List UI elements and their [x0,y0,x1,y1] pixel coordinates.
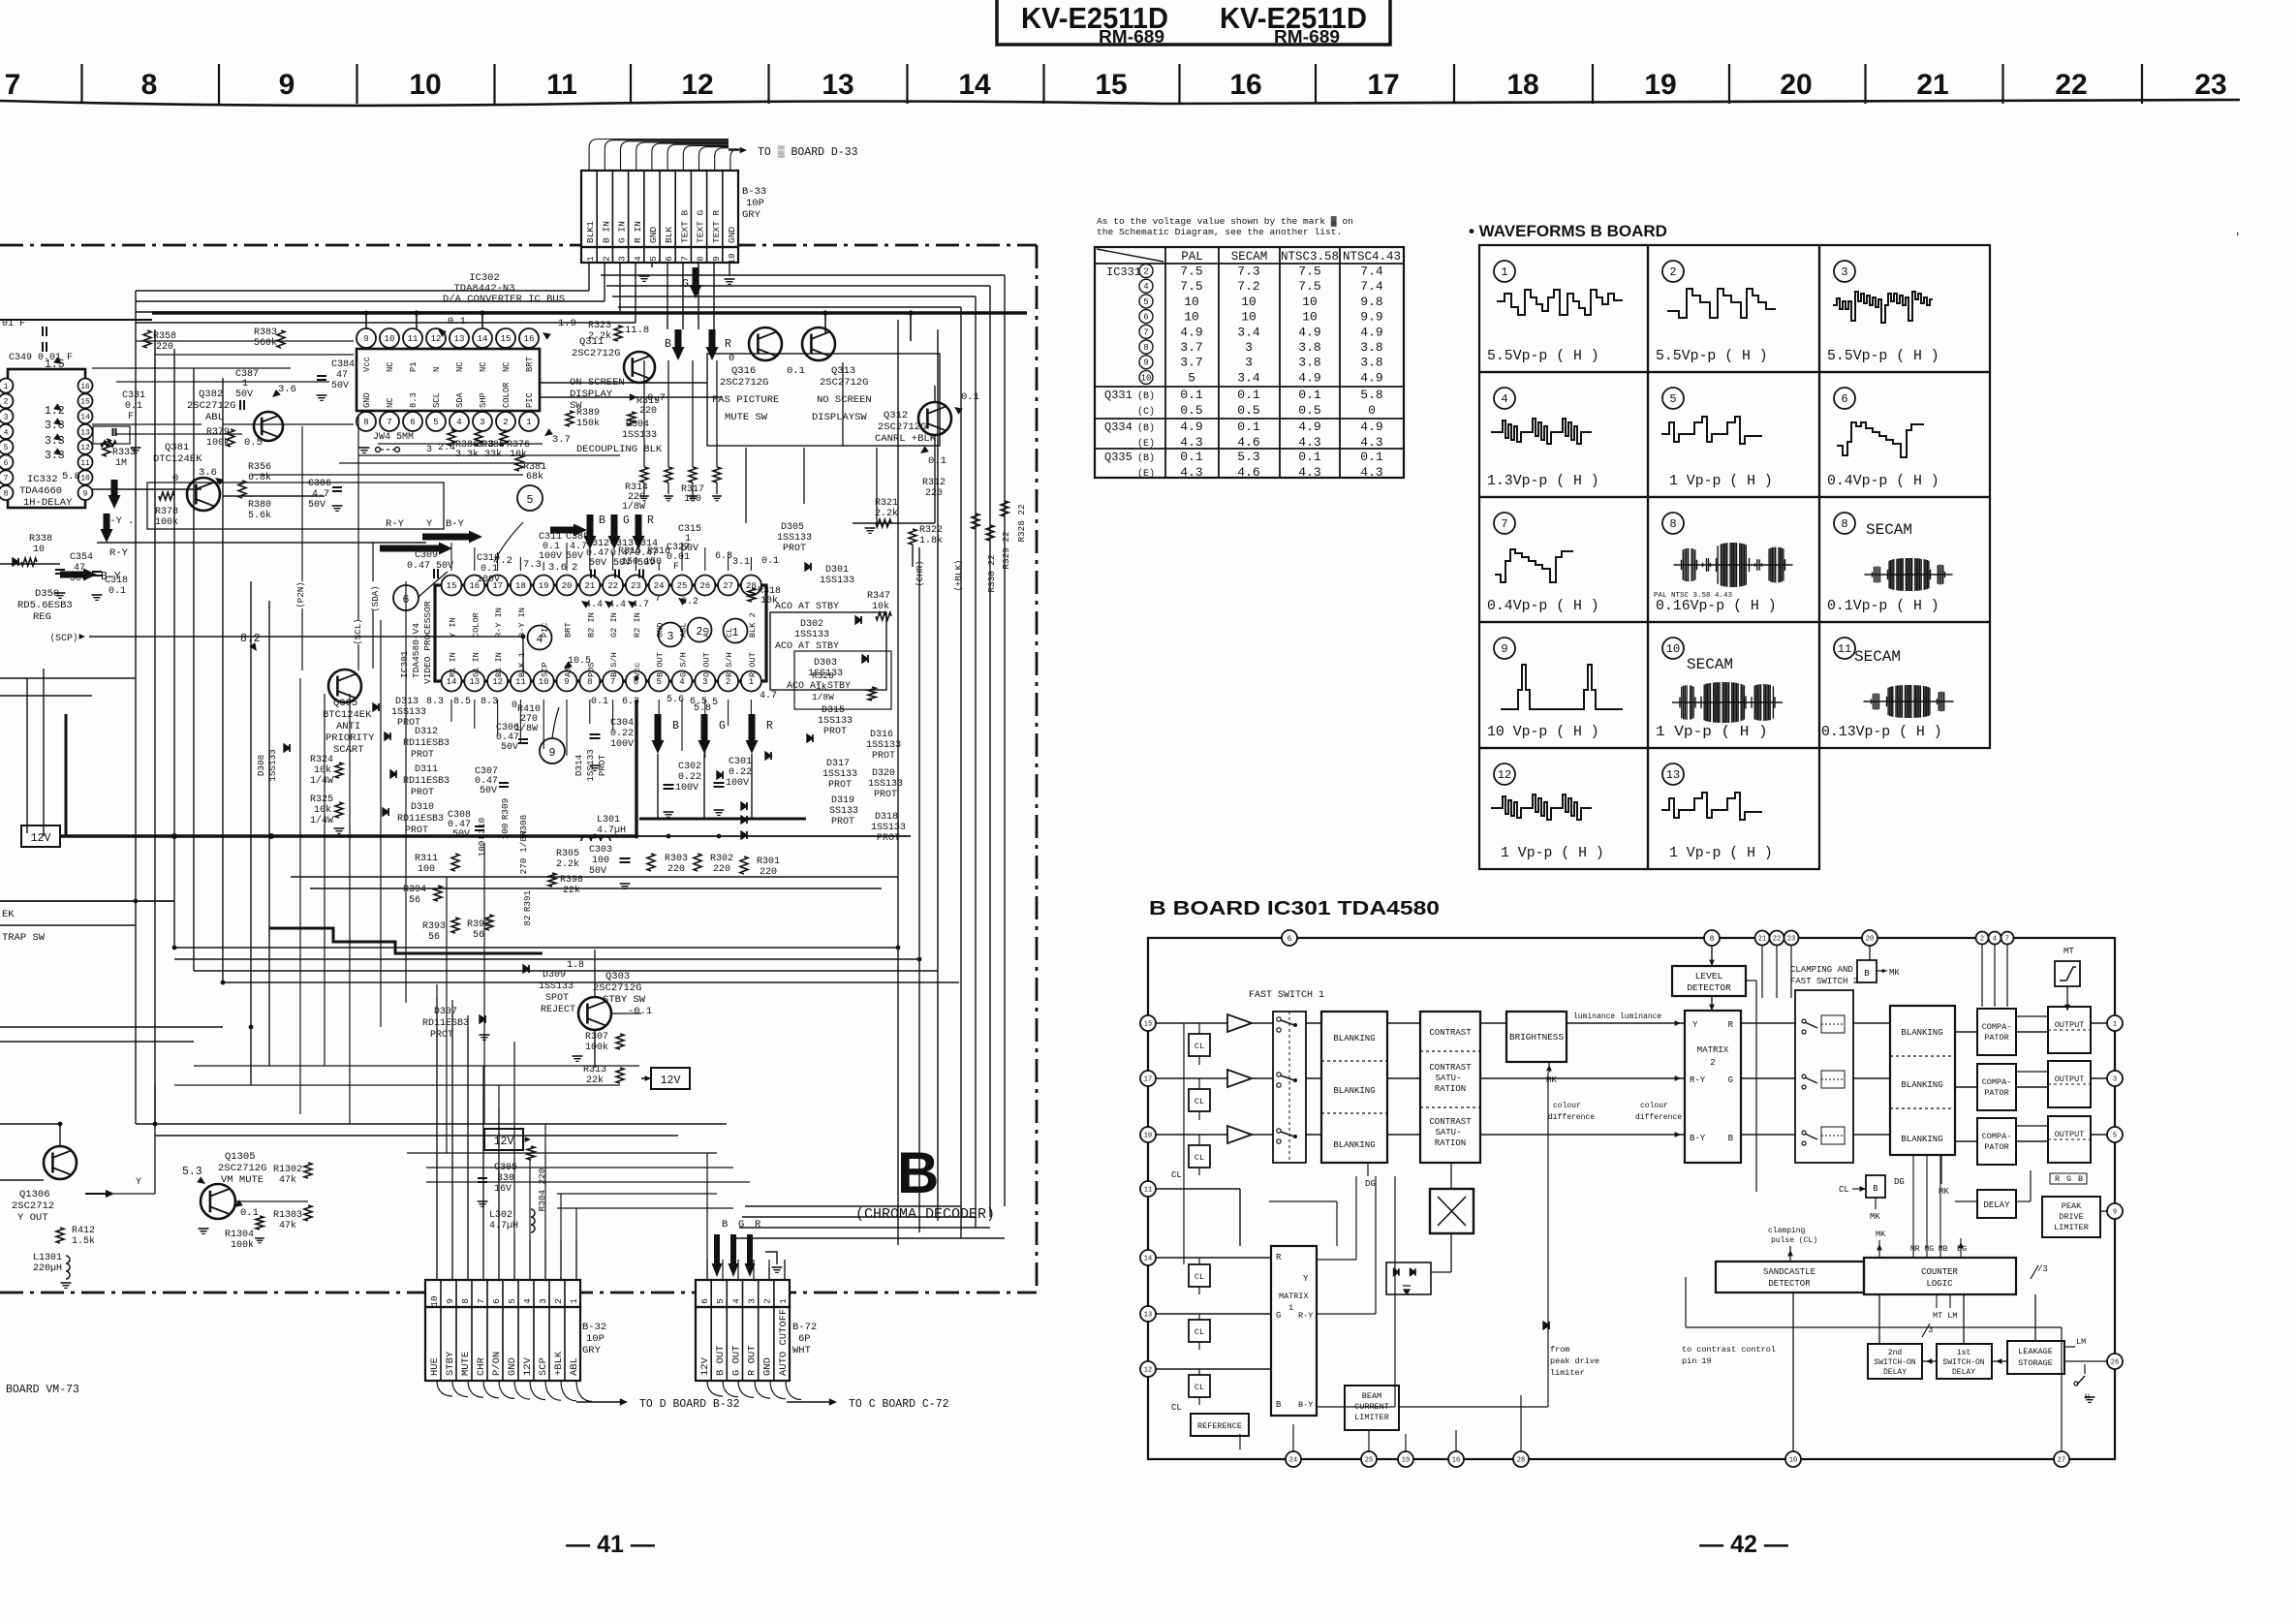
resistors under connector verticals [640,467,648,483]
svg-text:4: 4 [1501,392,1507,406]
svg-text:10k: 10k [314,764,331,776]
svg-text:SATU-: SATU- [1435,1128,1461,1137]
fat arrow down at B-Y [109,480,121,509]
svg-text:5.3: 5.3 [1237,450,1259,464]
svg-text:1: 1 [1288,1303,1293,1313]
svg-text:4.6: 4.6 [1237,465,1259,480]
svg-text:G: G [1728,1075,1733,1085]
svg-text:B: B [1864,969,1870,979]
svg-text:BLK1: BLK1 [585,221,596,243]
block LEVEL DETECTOR [1672,966,1746,996]
wire verticals in switch box area [745,448,747,523]
svg-text:21: 21 [1758,936,1766,944]
svg-text:2.2k: 2.2k [556,858,579,870]
svg-text:B IN: B IN [601,221,611,243]
svg-text:0.1: 0.1 [1298,388,1321,402]
svg-text:DETECTOR: DETECTOR [1768,1279,1811,1289]
svg-text:SCL: SCL [432,392,442,408]
svg-text:3: 3 [667,631,674,643]
svg-text:Y IN: Y IN [449,617,458,638]
svg-text:220: 220 [667,864,685,875]
svg-text:12V: 12V [661,1075,681,1087]
svg-text:4.9: 4.9 [1180,325,1202,339]
svg-text:1: 1 [586,256,596,261]
svg-text:⟨SCL⟩: ⟨SCL⟩ [353,618,363,645]
svg-text:1: 1 [526,418,531,427]
svg-text:3.6: 3.6 [199,467,217,479]
svg-text:B: B [897,1140,939,1205]
svg-text:difference: difference [1548,1113,1595,1122]
fat arrow right into IC301 pin15 [550,524,587,537]
svg-text:ACO AT STBY: ACO AT STBY [775,602,839,612]
svg-text:L1301: L1301 [33,1253,62,1263]
svg-text:0.5: 0.5 [244,437,263,449]
svg-text:220: 220 [713,864,730,875]
wire peak drive limiter to right pin 9 [2100,1210,2107,1212]
svg-text:10: 10 [1184,310,1199,325]
svg-text:10: 10 [1241,310,1257,325]
block BRIGHTNESS [1506,1012,1567,1062]
svg-text:RD5.6ESB3: RD5.6ESB3 [17,600,73,611]
svg-text:/3: /3 [2037,1264,2048,1274]
svg-text:3.4: 3.4 [1237,370,1260,385]
svg-text:11: 11 [408,334,419,344]
svg-text:13: 13 [822,69,853,101]
svg-text:100k: 100k [231,1239,254,1251]
svg-text:12: 12 [681,69,713,101]
svg-text:R311: R311 [415,854,438,864]
svg-text:100V: 100V [477,575,500,585]
svg-text:PATOR: PATOR [1984,1142,2009,1152]
svg-text:OUTPUT: OUTPUT [2055,1020,2085,1030]
board border dash-dot bottom [0,1292,1037,1294]
svg-text:— 41 —: — 41 — [566,1531,655,1558]
svg-text:SANDCASTLE: SANDCASTLE [1763,1267,1815,1277]
svg-text:11: 11 [515,677,526,687]
svg-text:As to the voltage value shown: As to the voltage value shown by the mar… [1097,216,1353,227]
waveform 1 cell [1494,261,1515,282]
wire horizontals lower mid [174,947,898,949]
svg-text:G S/H: G S/H [679,652,689,677]
svg-text:100k: 100k [206,437,230,449]
svg-text:DRIVE: DRIVE [2059,1212,2084,1222]
svg-text:22: 22 [1773,936,1781,944]
wire connector region verticals [436,1240,438,1280]
svg-text:R: R [647,514,654,527]
svg-text:0.5: 0.5 [1180,403,1202,418]
block BLANKING input [1321,1012,1387,1163]
svg-text:13: 13 [1666,768,1680,782]
wire left pins to matrix1 [1156,1257,1271,1259]
svg-text:G: G [719,720,726,732]
block DELAY [1977,1190,2016,1218]
svg-text:B-Y: B-Y [446,518,465,530]
waveform 4 cell [1494,388,1515,409]
svg-text:3: 3 [480,418,484,427]
svg-text:1: 1 [4,383,9,391]
svg-text:50V: 50V [331,381,349,391]
svg-text:R330 22: R330 22 [986,554,997,592]
svg-text:DG: DG [1365,1179,1376,1189]
svg-text:Q1305: Q1305 [225,1151,256,1163]
svg-text:R: R [1728,1020,1734,1030]
svg-text:STBY SW: STBY SW [603,994,646,1006]
svg-text:4.9: 4.9 [1298,325,1320,339]
svg-text:1: 1 [778,1298,789,1304]
wire horizontals feeding B-72 [557,1193,717,1195]
svg-text:RATION: RATION [1435,1084,1466,1094]
grid ruler line [0,100,2240,106]
svg-text:B1 IN: B1 IN [494,652,504,677]
svg-text:G2 IN: G2 IN [609,612,619,638]
svg-text:12V: 12V [699,1356,711,1376]
svg-text:150 150: 150 150 [621,557,662,568]
svg-text:50V: 50V [589,866,606,877]
svg-text:7.2: 7.2 [494,555,512,567]
svg-text:PROT: PROT [411,788,434,798]
svg-text:9: 9 [363,334,368,344]
svg-text:47k: 47k [279,1220,296,1231]
svg-text:SECAM: SECAM [1866,521,1912,539]
svg-text:12V: 12V [494,1136,514,1148]
svg-text:4.3: 4.3 [1360,465,1382,480]
svg-text:CHR: CHR [476,1356,487,1376]
svg-text:0.1: 0.1 [1237,388,1260,402]
svg-text:pulse (CL): pulse (CL) [1771,1236,1817,1245]
small box B top [1857,960,1877,982]
svg-text:0.1: 0.1 [109,586,126,597]
svg-text:SECAM: SECAM [1687,656,1733,673]
svg-text:Q381: Q381 [165,442,189,453]
svg-text:Q303: Q303 [605,971,630,982]
fat arrows B G R to IC301 pins 21-23 [584,514,597,549]
block PEAK DRIVE LIMITER [2042,1197,2100,1237]
svg-text:colour: colour [1553,1102,1581,1110]
svg-text:FAS PICTURE: FAS PICTURE [712,394,779,406]
svg-text:R1303: R1303 [273,1210,302,1221]
svg-text:Q1306: Q1306 [19,1189,50,1200]
svg-text:2: 2 [602,256,611,261]
svg-text:5: 5 [4,444,9,452]
fat arrows B G R into B-72 [712,1234,723,1277]
wire B-72 verticals tall [706,1153,708,1280]
blocks OUTPUT x3 [2048,1007,2091,1053]
svg-text:NC: NC [455,361,465,372]
svg-text:R: R [755,1219,761,1231]
svg-text:3.6: 3.6 [548,562,567,574]
arrow Y out [106,1190,114,1198]
wire connector B-33 pin drops [588,263,590,291]
svg-text:17: 17 [1367,69,1399,101]
svg-text:3: 3 [618,256,628,261]
svg-text:7: 7 [680,256,690,261]
svg-text:LOGIC: LOGIC [1926,1279,1953,1289]
svg-text:12: 12 [1498,768,1511,782]
svg-text:4.3: 4.3 [1360,435,1382,450]
svg-text:L301: L301 [597,815,620,826]
svg-text:2: 2 [553,1298,564,1304]
svg-text:Q382: Q382 [199,389,223,400]
svg-text:11: 11 [546,69,577,101]
svg-text:ABL: ABL [205,412,224,423]
svg-text:3: 3 [1841,265,1847,279]
svg-text:DETECTOR: DETECTOR [1687,982,1731,993]
connector B-33 [581,171,738,263]
svg-text:DECOUPLING BLK: DECOUPLING BLK [576,444,663,455]
svg-text:CL: CL [1195,1383,1204,1392]
svg-text:8: 8 [141,69,158,101]
waveform 2 cell [1662,261,1684,282]
svg-text:4.3: 4.3 [1180,465,1202,480]
svg-text:0.1: 0.1 [591,697,608,707]
svg-text:REG: REG [33,611,51,623]
svg-text:1: 1 [749,677,754,687]
wire nested corner bottoms to connectors [736,1237,1005,1239]
svg-text:3.8: 3.8 [1360,340,1382,355]
svg-text:Q305: Q305 [333,698,357,709]
svg-text:GND: GND [507,1357,518,1376]
svg-text:18: 18 [1506,69,1538,101]
wire lower-left area [0,1123,60,1125]
svg-text:D313: D313 [395,697,419,707]
board border dash-dot right [1036,245,1039,1293]
svg-text:6: 6 [699,1298,710,1304]
wire horizontal sub-bus y335 [0,319,152,321]
svg-text:TEXT R: TEXT R [711,209,722,243]
svg-text:SCP: SCP [538,1357,549,1376]
title box KV-E2511D RM-689 [997,0,1390,45]
svg-text:6.8k: 6.8k [248,472,271,483]
fat arrow right mid2 [422,531,482,544]
svg-text:4.3: 4.3 [1180,435,1202,450]
wire horizontals left low [0,900,174,902]
svg-text:R380: R380 [248,500,271,511]
svg-text:PROT: PROT [874,790,897,800]
svg-text:TO ▒ BOARD D-33: TO ▒ BOARD D-33 [758,145,858,159]
svg-text:TDA4660: TDA4660 [19,485,62,497]
svg-text:from: from [1550,1345,1569,1355]
svg-text:SECAM: SECAM [1231,250,1268,264]
svg-text:0.1: 0.1 [240,1207,259,1219]
svg-text:68k: 68k [526,471,543,483]
svg-text:R325: R325 [310,794,333,805]
svg-text:33k: 33k [484,449,502,460]
svg-text:PROT: PROT [783,544,806,554]
svg-text:RD11ESB3: RD11ESB3 [397,814,444,825]
svg-text:9: 9 [1501,642,1507,656]
fat arrow right mid1 [380,543,452,555]
svg-text:⟨SDA⟩: ⟨SDA⟩ [370,585,381,612]
svg-text:Y: Y [1692,1020,1698,1030]
blocks COMPARATOR x3 [1977,1009,2016,1055]
svg-text:P/ON: P/ON [491,1352,503,1376]
svg-text:B: B [722,1219,728,1231]
diode pair block [1386,1262,1431,1294]
wire vertical pin21-23 to fast switch 2 [1761,946,1763,998]
svg-text:(B): (B) [1137,422,1155,434]
waveform ref circle 4 [528,626,552,650]
svg-text:8.3: 8.3 [409,392,419,408]
svg-text:5.6k: 5.6k [248,510,271,521]
svg-text:4.9: 4.9 [1298,370,1320,385]
svg-text:1SS133: 1SS133 [820,576,854,586]
wire Q312 connections [934,386,936,402]
svg-text:DTC124EK: DTC124EK [153,453,202,465]
svg-text:47k: 47k [279,1174,296,1186]
svg-text:CL: CL [1195,1153,1204,1163]
wire thick top bus [152,311,1027,315]
svg-text:5.5Vp-p ( H ): 5.5Vp-p ( H ) [1827,349,1939,364]
svg-text:OUTPUT: OUTPUT [2055,1130,2085,1139]
svg-text:3.4: 3.4 [1237,325,1260,339]
svg-text:3.3k: 3.3k [455,449,479,460]
waveform 8 cell [1834,513,1855,534]
svg-text:8: 8 [1143,343,1148,353]
svg-text:0.5: 0.5 [1237,403,1259,418]
svg-text:9: 9 [2113,1209,2117,1217]
svg-text:R OUT: R OUT [747,1345,759,1376]
svg-text:0.47 50V: 0.47 50V [407,561,453,572]
svg-text:peak drive: peak drive [1550,1356,1599,1366]
svg-text:⟨SCP⟩: ⟨SCP⟩ [49,633,78,644]
svg-text:B: B [599,514,605,527]
block 1st SWITCH-ON DELAY [1937,1344,1992,1379]
svg-text:4: 4 [456,418,461,427]
svg-text:3: 3 [747,1298,758,1304]
svg-text:B: B [2078,1174,2083,1184]
svg-text:12V: 12V [31,832,51,845]
svg-text:BOARD VM-73: BOARD VM-73 [6,1384,79,1396]
wire B-32 verticals tall [436,984,438,1280]
svg-text:100V: 100V [539,551,562,562]
svg-text:CL: CL [1839,1185,1849,1195]
svg-text:9: 9 [279,69,295,101]
svg-text:2: 2 [503,418,508,427]
pins 21 22 23 top [1755,931,1770,946]
svg-text:4.9: 4.9 [1360,370,1382,385]
block CONTRAST and SATURATION [1420,1012,1480,1163]
svg-text:R1 IN: R1 IN [449,652,458,677]
svg-text:9: 9 [445,1298,455,1304]
svg-text:4: 4 [522,1298,533,1304]
svg-text:3.1: 3.1 [732,557,750,568]
wire vertical SDA SCL long [372,610,374,669]
fat arrow right B-Y [60,569,97,581]
svg-text:G IN: G IN [617,221,628,243]
svg-text:7: 7 [5,69,21,101]
svg-text:8.3: 8.3 [426,697,444,707]
svg-text:3: 3 [1245,340,1253,355]
svg-text:G: G [623,514,630,527]
svg-text:R321: R321 [875,498,898,509]
svg-text:D314: D314 [574,754,584,776]
svg-text:5.8: 5.8 [1360,388,1382,402]
svg-text:3.7: 3.7 [1180,356,1202,370]
waveform ref circle 9 [540,738,565,763]
wire switch-on delay chain [1922,1360,1937,1362]
fast switch 1 box [1273,1012,1306,1163]
wire delay block links [1941,1184,1977,1201]
CL clamp boxes lower [1189,1264,1210,1287]
svg-text:R S/H: R S/H [725,652,734,677]
svg-text:2: 2 [4,398,9,407]
svg-text:D318: D318 [875,812,898,823]
waveform ref circle 2 [688,618,712,642]
pin 6 top [1282,930,1297,946]
svg-text:7.5: 7.5 [1180,279,1202,294]
svg-text:7.2: 7.2 [1237,279,1259,294]
wire mid horizontal bus set y455-540 [92,488,202,490]
svg-text:50V: 50V [308,500,326,511]
svg-text:18: 18 [515,581,526,591]
svg-text:1SS133: 1SS133 [822,769,857,780]
svg-text:8.5: 8.5 [453,697,471,707]
svg-text:7: 7 [1501,517,1507,531]
svg-text:MUTE: MUTE [460,1352,472,1376]
svg-text:100: 100 [592,856,609,866]
svg-text:COUNTER: COUNTER [1921,1267,1958,1277]
transistor Q313 NO SCREEN DISPLAYSW [802,327,835,360]
svg-text:50V: 50V [235,389,253,400]
pins right 1 3 5 9 26 [2107,1015,2123,1031]
svg-text:colour: colour [1640,1102,1668,1110]
svg-text:Y OUT: Y OUT [17,1212,48,1224]
svg-text:8: 8 [460,1298,471,1304]
connector B-32 [425,1280,580,1381]
svg-text:VM MUTE: VM MUTE [221,1174,264,1186]
waveform ref circle 6 [393,585,419,610]
svg-text:10: 10 [429,1295,440,1306]
svg-text:D304: D304 [626,420,649,430]
wire long verticals from IC301 pins down [450,700,452,722]
svg-text:Y: Y [426,518,433,530]
svg-text:B: B [1276,1400,1282,1410]
svg-text:3.8: 3.8 [1298,340,1320,355]
svg-text:4: 4 [730,1298,741,1304]
voltage table frame [1095,247,1404,478]
svg-text:ACO AT STBY: ACO AT STBY [775,641,839,652]
svg-text:8: 8 [4,490,9,499]
svg-text:GND: GND [648,227,659,243]
svg-text:10k: 10k [314,804,331,816]
svg-text:16: 16 [80,383,90,391]
board border dash-dot top [0,244,1037,247]
svg-text:R: R [766,720,773,732]
svg-text:PROT: PROT [411,750,434,761]
svg-text:1: 1 [569,1298,579,1304]
svg-text:PATOR: PATOR [1984,1088,2009,1098]
waveform ref circle 3 [659,623,683,647]
svg-text:8: 8 [587,677,592,687]
svg-text:NC: NC [502,361,512,372]
svg-text:16: 16 [1229,69,1261,101]
svg-text:2SC2712G: 2SC2712G [218,1163,266,1174]
svg-text:10: 10 [1302,295,1318,309]
svg-text:1.5k: 1.5k [72,1235,95,1247]
svg-text:10.5: 10.5 [568,656,591,667]
wire sandcastle counter vertical links [1792,1293,1794,1451]
svg-text:50V: 50V [566,551,583,562]
wire left pins to amps and blanking rows [1156,1022,1227,1024]
svg-text:1SS133: 1SS133 [866,740,901,751]
wire comparator to output rows [2016,1031,2048,1033]
svg-text:6P: 6P [798,1333,811,1345]
svg-text:3.7: 3.7 [552,434,571,446]
svg-text:NC: NC [479,361,488,372]
svg-text:10 Vp-p ( H ): 10 Vp-p ( H ) [1487,725,1599,740]
svg-text:0.22: 0.22 [729,767,752,778]
svg-text:BLANKING: BLANKING [1901,1135,1942,1144]
